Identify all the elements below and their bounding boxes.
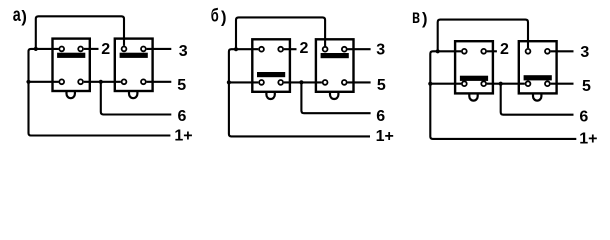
wire: link S1 bottom-right to S2 bottom-left (variant b) — [284, 81, 322, 83]
svg-text:1+: 1+ — [376, 128, 394, 145]
switch S1-a movable contact bar (top position) — [57, 53, 85, 58]
wire: S1 top-left stub, left bus down to terminal 1+ line (variant v) — [430, 51, 576, 139]
svg-text:5: 5 — [582, 78, 591, 95]
svg-text:6: 6 — [376, 108, 385, 125]
junction dot: top-left node (variant b) — [234, 47, 238, 51]
switch S2-v top-left contact terminal — [526, 49, 531, 54]
svg-text:2: 2 — [300, 40, 309, 57]
wire: S1 bottom-left stub to left bus (variant v) — [430, 83, 461, 85]
switch S1-b bottom-left contact terminal — [259, 80, 264, 85]
switch S1-v actuator button — [469, 93, 477, 101]
wire: S1 top-right stub to terminal 2 (variant b) — [284, 48, 297, 50]
wire: top jumper from S1 top-left terminal node up and over to S2 top-left terminal (variant a) — [36, 16, 124, 49]
switch S1-v movable contact bar (bottom position) — [460, 76, 488, 81]
svg-text:б: б — [211, 5, 219, 26]
wire: link S1 bottom-right to S2 bottom-left (variant v) — [487, 83, 525, 85]
svg-text:): ) — [422, 10, 428, 28]
switch S2-a housing — [115, 39, 153, 91]
junction dot: left bus / S1 bottom-left (variant v) — [428, 82, 432, 86]
variant label в) — [412, 6, 428, 28]
wire: middle node down and right to terminal 6 (variant a) — [101, 82, 172, 115]
switch S2-v housing — [519, 41, 557, 93]
wire: S2 top-right stub to terminal 3 (variant b) — [348, 48, 371, 50]
svg-text:а: а — [13, 4, 21, 26]
switch S2-b housing — [316, 39, 354, 92]
wire: S1 top-right stub to terminal 2 (variant v) — [487, 50, 497, 52]
wire: S1 top-left stub, left bus down to terminal 1+ line (variant b) — [229, 49, 370, 136]
switch S2-b movable contact bar (top position) — [321, 53, 349, 58]
variant label а) — [13, 4, 27, 26]
variant label б) — [211, 5, 227, 27]
junction dot: middle bottom node (variant a) — [99, 80, 103, 84]
switch S1-a bottom-right contact terminal — [78, 79, 83, 84]
wire: S1 bottom-left stub to left bus (variant a) — [29, 81, 59, 83]
wire: top jumper from S1 top-left terminal node up and over to S2 top-left terminal (variant v) — [438, 20, 528, 52]
switch S2-a movable contact bar (top position) — [120, 53, 148, 58]
junction dot: left bus / S1 bottom-left (variant b) — [227, 80, 231, 84]
switch S2-v actuator button — [533, 93, 541, 101]
switch S2-v movable contact bar (bottom position) — [524, 75, 552, 80]
switch S1-a housing — [53, 39, 90, 91]
switch S1-a top-left contact terminal — [59, 47, 64, 52]
switch S1-b movable contact bar (bottom position) — [257, 72, 285, 77]
switch S1-a top-right contact terminal — [78, 47, 83, 52]
wire: link S1 bottom-right to S2 bottom-left (variant a) — [84, 81, 121, 83]
switch S1-a actuator button — [67, 91, 75, 99]
svg-text:5: 5 — [177, 77, 186, 94]
svg-text:1+: 1+ — [174, 127, 192, 144]
switch S2-v bottom-right contact terminal — [545, 81, 550, 86]
switch S1-b bottom-right contact terminal — [278, 80, 283, 85]
svg-text:): ) — [21, 8, 27, 26]
switch S2-a actuator button — [129, 91, 137, 99]
svg-text:1+: 1+ — [579, 130, 597, 147]
wire: S2 top-right stub to terminal 3 (variant v) — [551, 50, 574, 52]
wire: top jumper from S1 top-left terminal node up and over to S2 top-left terminal (variant b) — [236, 17, 325, 49]
switch S2-b actuator button — [330, 91, 338, 99]
wire: S1 top-right stub to terminal 2 (variant a) — [84, 48, 99, 50]
junction dot: top-left node (variant a) — [34, 47, 38, 51]
switch S1-v bottom-left contact terminal — [462, 81, 467, 86]
svg-text:6: 6 — [178, 108, 187, 125]
switch S1-b top-right contact terminal — [278, 47, 283, 52]
wire: middle node down and right to terminal 6 (variant b) — [301, 82, 370, 113]
switch S2-v bottom-left contact terminal — [526, 81, 531, 86]
switch S2-a top-right contact terminal — [141, 47, 146, 52]
junction dot: middle bottom node (variant b) — [299, 80, 303, 84]
svg-text:3: 3 — [179, 43, 188, 60]
switch S1-a bottom-left contact terminal — [59, 79, 64, 84]
wire: S2 bottom-right stub to terminal 5 (variant a) — [147, 81, 172, 83]
wire: S1 bottom-left stub to left bus (variant b) — [229, 81, 258, 83]
wire: S2 top-right stub to terminal 3 (variant a) — [147, 48, 172, 50]
svg-text:2: 2 — [101, 41, 110, 58]
svg-text:3: 3 — [376, 41, 385, 58]
switch S2-b bottom-right contact terminal — [342, 80, 347, 85]
svg-text:3: 3 — [580, 44, 589, 61]
switch S2-b top-left contact terminal — [323, 47, 328, 52]
wire: S2 bottom-right stub to terminal 5 (variant b) — [348, 81, 371, 83]
wire: S2 bottom-right stub to terminal 5 (variant v) — [551, 83, 574, 85]
switch S2-b bottom-left contact terminal — [323, 80, 328, 85]
switch S1-b top-left contact terminal — [259, 47, 264, 52]
svg-text:6: 6 — [579, 108, 588, 125]
switch S2-a bottom-left contact terminal — [122, 79, 127, 84]
switch S2-a top-left contact terminal — [122, 47, 127, 52]
svg-text:2: 2 — [500, 41, 509, 58]
switch S1-v housing — [455, 41, 493, 93]
switch S2-a bottom-right contact terminal — [141, 79, 146, 84]
junction dot: middle bottom node (variant v) — [499, 82, 503, 86]
svg-text:): ) — [221, 9, 227, 27]
junction dot: top-left node (variant v) — [436, 49, 440, 53]
wire: middle node down and right to terminal 6 (variant v) — [501, 84, 574, 115]
switch S1-b housing — [252, 39, 290, 92]
switch S2-v top-right contact terminal — [545, 49, 550, 54]
switch S1-b actuator button — [266, 91, 274, 99]
switch S1-v bottom-right contact terminal — [481, 81, 486, 86]
switch S1-v top-right contact terminal — [481, 49, 486, 54]
switch S1-v top-left contact terminal — [462, 49, 467, 54]
svg-text:в: в — [412, 6, 420, 28]
svg-text:5: 5 — [377, 77, 386, 94]
junction dot: left bus / S1 bottom-left (variant a) — [26, 80, 30, 84]
switch S2-b top-right contact terminal — [342, 47, 347, 52]
wire: S1 top-left stub, left bus down to terminal 1+ line (variant a) — [29, 49, 171, 136]
